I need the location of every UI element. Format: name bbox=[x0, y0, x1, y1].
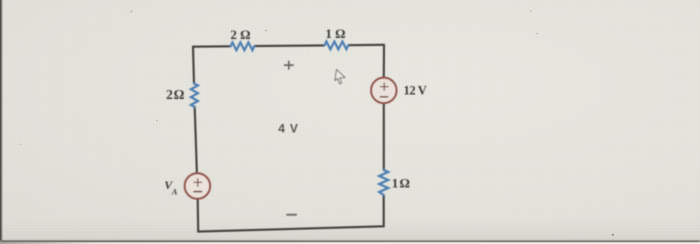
svg-text:4 V: 4 V bbox=[278, 121, 298, 135]
svg-text:1 Ω: 1 Ω bbox=[392, 175, 410, 190]
svg-text:12 V: 12 V bbox=[404, 83, 427, 97]
svg-text:1 Ω: 1 Ω bbox=[325, 26, 345, 41]
svg-text:2 Ω: 2 Ω bbox=[230, 27, 250, 42]
svg-text:2 Ω: 2 Ω bbox=[166, 87, 185, 102]
